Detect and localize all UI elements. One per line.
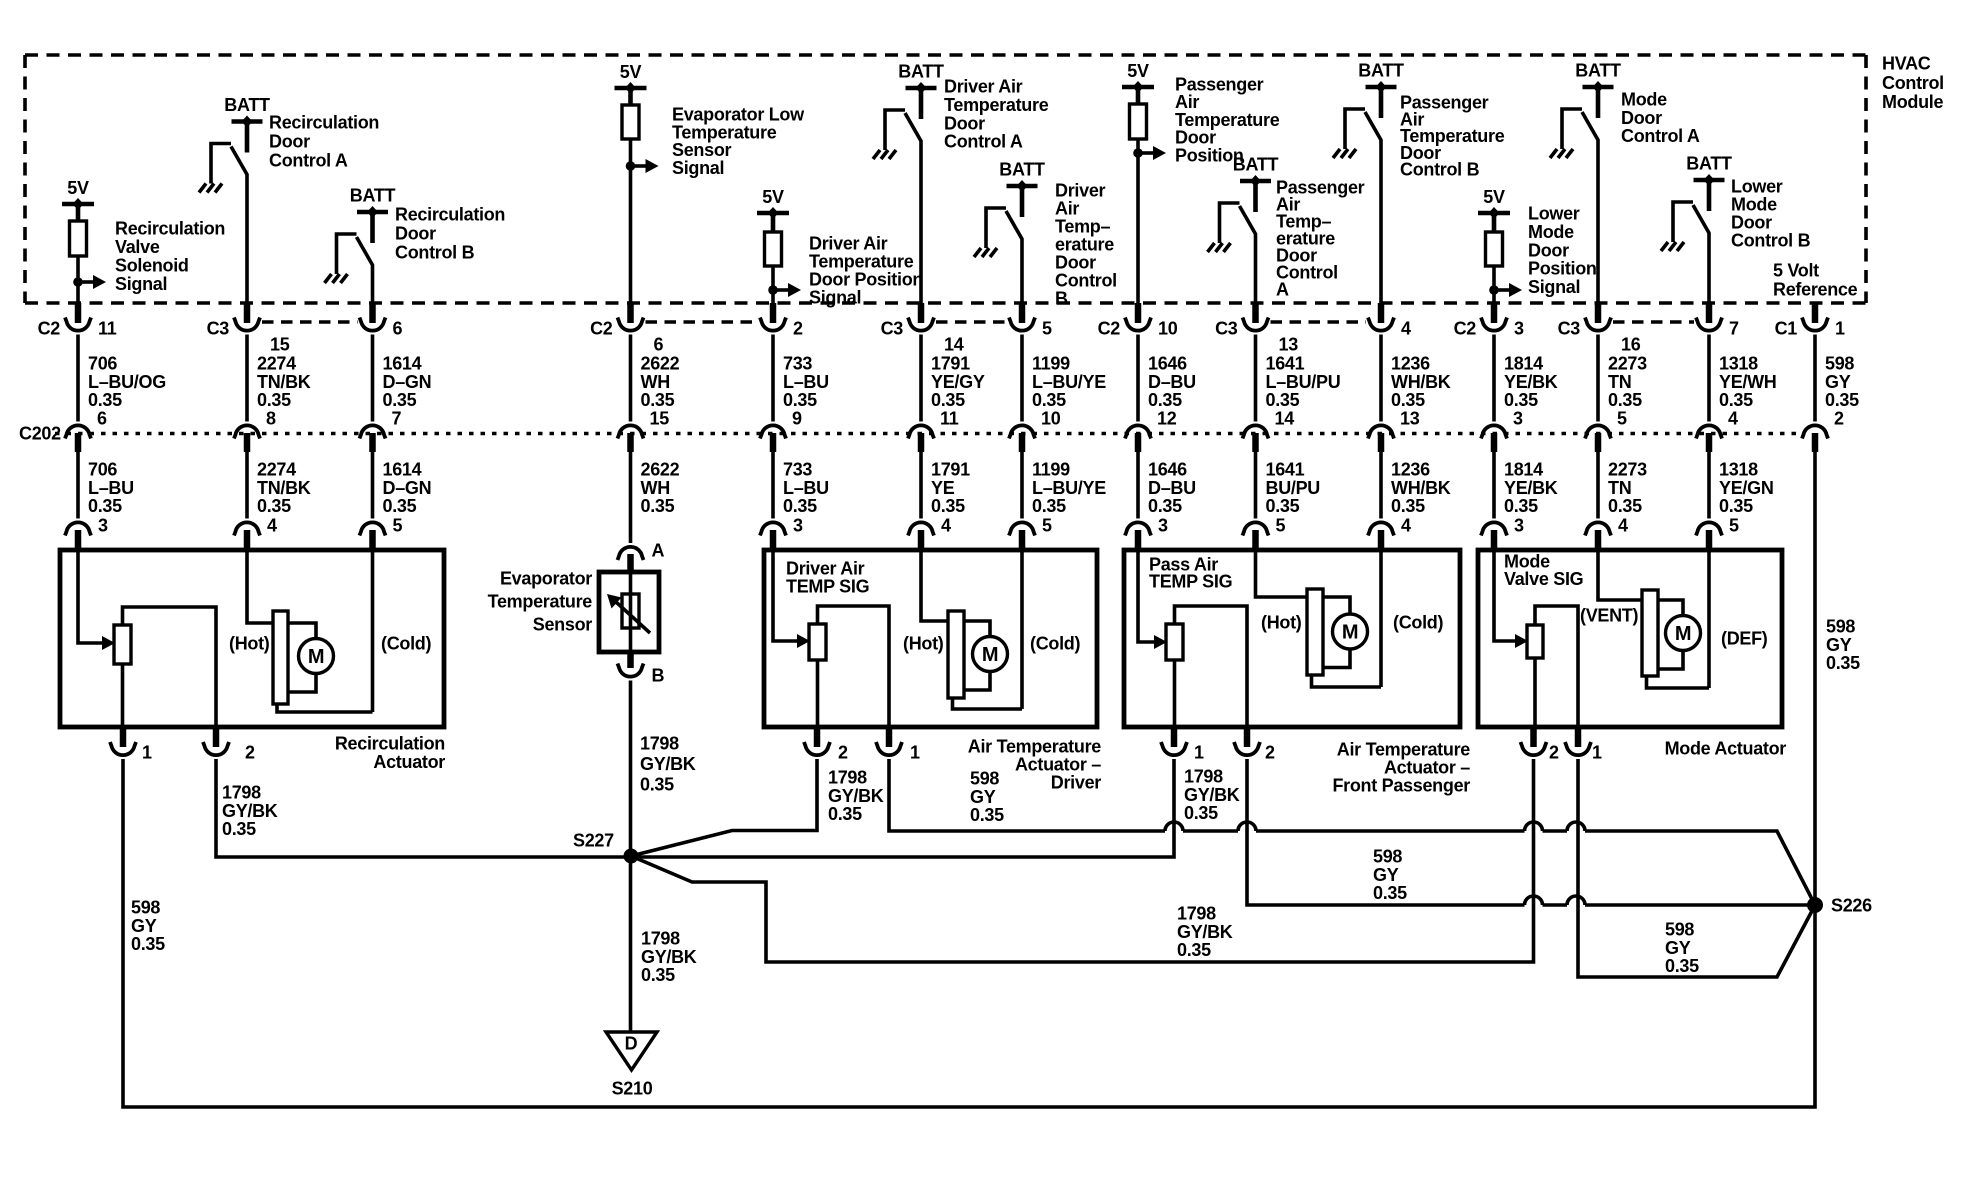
svg-text:0.35: 0.35	[1184, 803, 1218, 823]
svg-text:0.35: 0.35	[641, 390, 675, 410]
svg-text:4: 4	[1728, 409, 1738, 429]
mode box title	[1504, 552, 1583, 590]
connector pin 2 col5	[760, 303, 803, 339]
driver pot wiring	[818, 606, 890, 727]
svg-text:GY/BK: GY/BK	[641, 947, 697, 967]
svg-text:Mode Actuator: Mode Actuator	[1665, 739, 1787, 759]
svg-text:Actuator: Actuator	[373, 752, 445, 772]
signal tap dot and arrow col1	[73, 275, 106, 289]
recirc pin 2	[203, 727, 255, 763]
svg-text:3: 3	[793, 516, 803, 536]
svg-text:1646: 1646	[1148, 460, 1187, 480]
switch to ground col9	[1220, 203, 1256, 306]
connector C202 pin 8 col2	[234, 409, 276, 453]
svg-text:(Cold): (Cold)	[1393, 613, 1443, 633]
resistor col1	[70, 204, 87, 256]
svg-text:6: 6	[97, 409, 107, 429]
svg-text:0.35: 0.35	[257, 390, 291, 410]
wire col11 resistor to module edge	[1492, 266, 1496, 306]
svg-text:15: 15	[270, 335, 290, 355]
thermistor element	[607, 574, 650, 652]
svg-text:Signal: Signal	[1528, 277, 1580, 297]
svg-text:1: 1	[142, 743, 152, 763]
svg-text:0.35: 0.35	[1504, 496, 1538, 516]
svg-text:Control: Control	[1055, 271, 1117, 291]
recirc motor M	[247, 550, 373, 712]
svg-text:YE/BK: YE/BK	[1504, 372, 1558, 392]
recirc (Hot)/(Cold) labels	[229, 634, 431, 654]
svg-text:Control A: Control A	[1621, 126, 1700, 146]
svg-text:1798: 1798	[1184, 767, 1223, 787]
svg-text:Front Passenger: Front Passenger	[1332, 776, 1470, 796]
connector pin 5 col7	[1009, 303, 1052, 339]
svg-text:11: 11	[940, 409, 959, 429]
svg-text:4: 4	[1618, 516, 1628, 536]
svg-text:0.35: 0.35	[1373, 883, 1407, 903]
svg-text:D–BU: D–BU	[1148, 372, 1196, 392]
signal label col8	[1175, 75, 1280, 166]
wire 1236 WH/BK 0.35 col10	[1381, 335, 1451, 422]
svg-text:4: 4	[941, 516, 951, 536]
wire 1318 YE/WH 0.35 col13	[1709, 335, 1777, 422]
svg-text:Recirculation: Recirculation	[115, 219, 225, 239]
wire 2622 WH 0.35 col4	[631, 452, 680, 543]
svg-text:erature: erature	[1055, 235, 1114, 255]
svg-text:0.35: 0.35	[1608, 496, 1642, 516]
svg-text:5 Volt: 5 Volt	[1773, 261, 1819, 281]
svg-text:TEMP SIG: TEMP SIG	[786, 576, 869, 596]
mode motor M	[1598, 550, 1709, 688]
svg-text:Lower: Lower	[1528, 204, 1580, 224]
Air Temperature Actuator Driver caption	[968, 737, 1102, 793]
svg-text:8: 8	[266, 409, 276, 429]
svg-text:1798: 1798	[641, 929, 680, 949]
control label col12	[1621, 90, 1700, 147]
recirc pot wiring	[123, 607, 217, 727]
svg-text:Driver Air: Driver Air	[809, 234, 888, 254]
wire col1 resistor to module edge	[76, 256, 80, 306]
Air Temperature Actuator Front Passenger box	[1124, 550, 1460, 727]
svg-text:7: 7	[392, 409, 402, 429]
Recirculation Actuator box	[60, 550, 444, 727]
connector C2 pin 3 col11	[1454, 303, 1524, 339]
svg-text:1318: 1318	[1719, 460, 1758, 480]
svg-text:GY: GY	[1373, 865, 1399, 885]
wire 1614 D–GN 0.35 col3	[373, 335, 432, 422]
svg-text:3: 3	[1158, 516, 1168, 536]
wire 733 L–BU 0.35 col5	[773, 452, 829, 519]
svg-text:GY: GY	[1665, 938, 1691, 958]
svg-text:2622: 2622	[641, 460, 680, 480]
actuator connector pin 5 col9	[1243, 516, 1286, 553]
Air Temperature Actuator Front Passenger caption	[1332, 740, 1470, 796]
wire 598 GY 0.35 col14	[1815, 335, 1859, 422]
wire passenger pin1 to S227 (1798 GY/BK)	[631, 759, 1240, 857]
svg-text:Valve: Valve	[115, 237, 160, 257]
svg-text:GY/BK: GY/BK	[640, 754, 696, 774]
BATT supply bar col2	[224, 95, 270, 153]
svg-text:C1: C1	[1775, 319, 1798, 339]
svg-text:5: 5	[393, 516, 403, 536]
svg-text:B: B	[1055, 289, 1068, 309]
svg-text:C3: C3	[1558, 319, 1581, 339]
wire 1199 L–BU/YE 0.35 col7	[1022, 335, 1106, 422]
svg-text:C2: C2	[590, 319, 613, 339]
svg-text:0.35: 0.35	[1032, 390, 1066, 410]
svg-text:0.35: 0.35	[1719, 496, 1753, 516]
svg-text:M: M	[982, 644, 998, 666]
svg-text:598: 598	[1665, 920, 1694, 940]
svg-text:733: 733	[783, 354, 812, 374]
svg-text:YE/WH: YE/WH	[1719, 372, 1777, 392]
svg-text:1814: 1814	[1504, 460, 1543, 480]
svg-text:Module: Module	[1882, 92, 1943, 112]
BATT supply bar col12	[1575, 61, 1621, 119]
signal tap dot and arrow col5	[768, 283, 801, 297]
svg-text:(Cold): (Cold)	[381, 634, 431, 654]
svg-text:1641: 1641	[1266, 354, 1305, 374]
svg-text:14: 14	[944, 335, 964, 355]
svg-text:0.35: 0.35	[1826, 653, 1860, 673]
svg-text:Solenoid: Solenoid	[115, 256, 189, 276]
svg-text:1641: 1641	[1266, 460, 1305, 480]
svg-text:2274: 2274	[257, 460, 296, 480]
svg-text:S226: S226	[1831, 896, 1872, 916]
svg-text:C2: C2	[1454, 319, 1477, 339]
splice S227	[573, 831, 639, 864]
svg-text:598: 598	[1826, 617, 1855, 637]
svg-text:HVAC: HVAC	[1882, 54, 1931, 74]
svg-text:1614: 1614	[383, 460, 422, 480]
svg-text:1318: 1318	[1719, 354, 1758, 374]
svg-text:2: 2	[793, 319, 803, 339]
ground col12	[1550, 149, 1573, 158]
connector C202 pin 5 col12	[1585, 409, 1627, 453]
svg-text:BATT: BATT	[1686, 154, 1732, 174]
passenger pin 1	[1161, 727, 1204, 763]
svg-text:598: 598	[1373, 847, 1402, 867]
wire 1614 D–GN 0.35 col3	[373, 452, 432, 519]
ground col13	[1661, 242, 1684, 251]
svg-text:1199: 1199	[1032, 354, 1070, 374]
svg-text:0.35: 0.35	[641, 496, 675, 516]
svg-text:2273: 2273	[1608, 460, 1647, 480]
wire mode pin1 598 GY to S226	[1578, 759, 1813, 977]
svg-text:Control B: Control B	[1731, 231, 1811, 251]
control label col6	[944, 77, 1049, 152]
svg-text:5V: 5V	[762, 187, 784, 207]
svg-text:706: 706	[88, 354, 117, 374]
connector C202 pin 6 col1	[65, 409, 107, 453]
svg-text:YE: YE	[931, 478, 955, 498]
connector C202 dotted line	[55, 432, 1798, 436]
svg-text:GY: GY	[970, 787, 996, 807]
wire S227 to ground S210 (1798 GY/BK)	[631, 856, 697, 1032]
svg-text:TN: TN	[1608, 478, 1631, 498]
svg-text:0.35: 0.35	[1391, 390, 1425, 410]
wire 1199 L–BU/YE 0.35 col7	[1022, 452, 1106, 519]
connector C202 pin 12 col8	[1125, 409, 1177, 453]
svg-text:0.35: 0.35	[383, 390, 417, 410]
svg-text:0.35: 0.35	[383, 496, 417, 516]
connector C202 pin 2 col14	[1802, 409, 1844, 453]
svg-text:Temperature: Temperature	[488, 592, 593, 612]
svg-text:2274: 2274	[257, 354, 296, 374]
wire 1646 D–BU 0.35 col8	[1138, 452, 1196, 519]
connector C202 pin 13 col10	[1368, 409, 1420, 453]
passenger (Hot)/(Cold) labels	[1261, 613, 1443, 633]
svg-text:7: 7	[1729, 319, 1739, 339]
svg-text:WH: WH	[641, 478, 670, 498]
svg-text:BATT: BATT	[350, 186, 396, 206]
HVAC Control Module dashed outline	[25, 55, 1866, 303]
BATT supply bar col3	[350, 186, 396, 244]
svg-text:L–BU: L–BU	[783, 478, 829, 498]
svg-text:TN/BK: TN/BK	[257, 478, 311, 498]
svg-text:L–BU/OG: L–BU/OG	[88, 372, 166, 392]
svg-text:2273: 2273	[1608, 354, 1647, 374]
svg-text:1791: 1791	[931, 460, 970, 480]
passenger motor M	[1256, 550, 1382, 687]
control label col9	[1276, 178, 1365, 300]
svg-text:1798: 1798	[828, 768, 867, 788]
control label col3	[395, 205, 505, 263]
svg-text:Door Position: Door Position	[809, 270, 923, 290]
ground col10	[1333, 149, 1356, 158]
wire col5 resistor to module edge	[771, 266, 775, 306]
Air Temperature Actuator Driver box	[764, 550, 1097, 727]
connector pin B (evaporator sensor)	[618, 652, 665, 686]
evaporator sensor label	[488, 569, 593, 635]
svg-text:0.35: 0.35	[970, 805, 1004, 825]
svg-text:Control B: Control B	[1400, 160, 1480, 180]
wire 706 L–BU 0.35 col1	[78, 452, 134, 519]
svg-text:598: 598	[1825, 354, 1854, 374]
svg-text:5: 5	[1276, 516, 1286, 536]
actuator connector pin 4 col10	[1368, 516, 1411, 553]
svg-text:BATT: BATT	[224, 95, 270, 115]
svg-text:0.35: 0.35	[641, 965, 675, 985]
connector C3 pin 13 col9	[1215, 303, 1298, 355]
svg-text:3: 3	[98, 516, 108, 536]
svg-text:3: 3	[1513, 409, 1523, 429]
Mode Actuator caption	[1665, 739, 1787, 759]
wire 1318 YE/GN 0.35 col13	[1709, 452, 1774, 519]
svg-text:5V: 5V	[1483, 187, 1505, 207]
connector C202 pin 11 col6	[908, 409, 959, 453]
svg-text:L–BU/YE: L–BU/YE	[1032, 478, 1106, 498]
svg-text:0.35: 0.35	[131, 934, 165, 954]
svg-text:(Hot): (Hot)	[1261, 613, 1302, 633]
svg-text:C3: C3	[1215, 319, 1238, 339]
switch to ground col3	[337, 234, 373, 306]
svg-text:D–GN: D–GN	[383, 372, 432, 392]
connector pin 7 col13	[1696, 303, 1739, 339]
svg-text:6: 6	[654, 335, 664, 355]
svg-text:0.35: 0.35	[88, 496, 122, 516]
svg-text:Mode: Mode	[1731, 195, 1777, 215]
svg-text:1798: 1798	[222, 783, 261, 803]
ground col2	[199, 184, 222, 193]
S210 label	[612, 1079, 653, 1099]
svg-text:A: A	[652, 541, 665, 561]
svg-text:1236: 1236	[1391, 354, 1430, 374]
svg-text:0.35: 0.35	[88, 390, 122, 410]
svg-text:Signal: Signal	[809, 288, 861, 308]
switch to ground col10	[1345, 109, 1381, 306]
svg-text:598: 598	[131, 898, 160, 918]
connector C2 pin 10 col8	[1098, 303, 1178, 339]
svg-text:3: 3	[1514, 319, 1524, 339]
driver (Hot)/(Cold) labels	[903, 634, 1080, 654]
5V supply bar col11	[1478, 187, 1510, 219]
svg-text:13: 13	[1400, 409, 1420, 429]
svg-text:(Hot): (Hot)	[903, 634, 944, 654]
svg-text:5V: 5V	[620, 62, 642, 82]
svg-text:2: 2	[1834, 409, 1844, 429]
5V supply bar col4	[615, 62, 647, 94]
connector C3 pin 15 col2	[207, 303, 290, 355]
control label col10	[1400, 93, 1505, 180]
driver pin 1	[876, 727, 920, 763]
svg-text:S210: S210	[612, 1079, 653, 1099]
svg-text:BU/PU: BU/PU	[1266, 478, 1321, 498]
svg-text:12: 12	[1157, 409, 1177, 429]
driver motor M	[921, 550, 1022, 709]
svg-text:Driver: Driver	[1055, 181, 1106, 201]
passenger potentiometer with wiper arrow	[1138, 550, 1183, 660]
connector C202 pin 15 col4	[618, 409, 670, 453]
ground col6	[873, 150, 896, 159]
svg-text:GY: GY	[1826, 635, 1852, 655]
mode (VENT)/(DEF) labels	[1580, 606, 1768, 649]
wire 1791 YE/GY 0.35 col6	[921, 335, 985, 422]
5V supply bar col5	[757, 187, 789, 219]
svg-text:Reference: Reference	[1773, 280, 1858, 300]
svg-text:1: 1	[1835, 319, 1845, 339]
wire col8 resistor to module edge	[1136, 139, 1140, 306]
svg-text:0.35: 0.35	[1825, 390, 1859, 410]
signal tap dot and arrow col4	[626, 159, 659, 173]
signal tap dot and arrow col8	[1133, 146, 1166, 160]
driver potentiometer with wiper arrow	[773, 550, 826, 660]
connector C202 pin 7 col3	[360, 409, 402, 453]
svg-text:GY/BK: GY/BK	[1184, 785, 1240, 805]
Mode Actuator box	[1478, 550, 1782, 727]
svg-text:Air Temperature: Air Temperature	[1337, 740, 1470, 760]
driver pin 2	[804, 727, 848, 763]
svg-text:0.35: 0.35	[1148, 390, 1182, 410]
connector C202 pin 9 col5	[760, 409, 802, 453]
svg-text:2622: 2622	[641, 354, 680, 374]
wire 2274 TN/BK 0.35 col2	[247, 452, 311, 519]
svg-text:5V: 5V	[1127, 61, 1149, 81]
svg-text:GY: GY	[1825, 372, 1851, 392]
svg-text:(Hot): (Hot)	[229, 634, 270, 654]
svg-text:Driver Air: Driver Air	[944, 77, 1023, 97]
actuator connector pin 3 col8	[1125, 516, 1168, 553]
mode potentiometer with wiper arrow	[1494, 550, 1543, 658]
connector C2 pin 6 col4	[590, 303, 663, 355]
svg-text:0.35: 0.35	[222, 819, 256, 839]
wire 1641 BU/PU 0.35 col9	[1256, 452, 1321, 519]
resistor col11	[1486, 213, 1503, 266]
Recirculation Actuator caption	[335, 734, 445, 773]
svg-text:TN/BK: TN/BK	[257, 372, 311, 392]
svg-text:0.35: 0.35	[1266, 390, 1300, 410]
svg-text:GY/BK: GY/BK	[828, 786, 884, 806]
control label col7	[1055, 181, 1117, 309]
wire 1791 YE 0.35 col6	[921, 452, 970, 519]
actuator connector pin 5 col3	[360, 516, 403, 553]
svg-text:0.35: 0.35	[1504, 390, 1538, 410]
svg-text:Air: Air	[1055, 199, 1079, 219]
svg-text:706: 706	[88, 460, 117, 480]
connector C202 pin 10 col7	[1009, 409, 1061, 453]
actuator connector pin 4 col2	[234, 516, 277, 553]
svg-text:Recirculation: Recirculation	[335, 734, 445, 754]
svg-text:Temp–: Temp–	[1055, 217, 1110, 237]
connector pair dashed links (top row)	[262, 320, 1694, 324]
svg-text:WH: WH	[641, 372, 670, 392]
svg-text:BATT: BATT	[999, 160, 1045, 180]
wire 1641 L–BU/PU 0.35 col9	[1256, 335, 1341, 422]
actuator connector pin 3 col1	[65, 516, 108, 553]
svg-text:0.35: 0.35	[1665, 956, 1699, 976]
svg-text:Mode: Mode	[1528, 222, 1574, 242]
svg-text:0.35: 0.35	[1608, 390, 1642, 410]
svg-text:D: D	[625, 1034, 638, 1054]
connector C3 pin 16 col12	[1558, 303, 1641, 355]
svg-text:Valve SIG: Valve SIG	[1504, 569, 1583, 589]
svg-text:15: 15	[650, 409, 670, 429]
svg-text:4: 4	[1401, 319, 1411, 339]
svg-text:Temperature: Temperature	[809, 252, 914, 272]
svg-text:0.35: 0.35	[783, 390, 817, 410]
connector C3 pin 14 col6	[881, 303, 964, 355]
svg-text:4: 4	[267, 516, 277, 536]
svg-text:1798: 1798	[1177, 904, 1216, 924]
HVAC Control Module name	[1882, 54, 1944, 113]
switch to ground col6	[885, 110, 921, 306]
svg-text:C202: C202	[19, 424, 61, 444]
connector C202 pin 3 col11	[1481, 409, 1523, 453]
mode pot wiring	[1535, 606, 1578, 727]
svg-text:1614: 1614	[383, 354, 422, 374]
svg-text:Control: Control	[1882, 73, 1944, 93]
BATT supply bar col7	[999, 160, 1045, 218]
svg-text:(Cold): (Cold)	[1030, 634, 1080, 654]
svg-text:0.35: 0.35	[640, 775, 674, 795]
svg-text:0.35: 0.35	[1719, 390, 1753, 410]
svg-text:5: 5	[1042, 516, 1052, 536]
svg-text:0.35: 0.35	[931, 496, 965, 516]
svg-text:Door: Door	[1528, 240, 1569, 260]
svg-text:733: 733	[783, 460, 812, 480]
svg-text:L–BU/YE: L–BU/YE	[1032, 372, 1106, 392]
svg-text:YE/GN: YE/GN	[1719, 478, 1774, 498]
ground col3	[325, 274, 348, 283]
svg-text:Lower: Lower	[1731, 177, 1783, 197]
svg-text:YE/BK: YE/BK	[1504, 478, 1558, 498]
svg-text:L–BU/PU: L–BU/PU	[1266, 372, 1341, 392]
svg-text:0.35: 0.35	[1177, 940, 1211, 960]
svg-text:1199: 1199	[1032, 460, 1070, 480]
svg-text:1814: 1814	[1504, 354, 1543, 374]
svg-text:WH/BK: WH/BK	[1391, 372, 1451, 392]
svg-text:(DEF): (DEF)	[1721, 629, 1768, 649]
svg-text:11: 11	[98, 319, 117, 339]
